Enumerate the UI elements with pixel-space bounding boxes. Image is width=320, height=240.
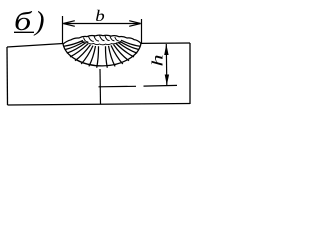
dimension b extension line right <box>141 19 143 44</box>
left plate top edge <box>7 44 63 48</box>
left plate left edge <box>6 47 9 105</box>
svg-text:h: h <box>149 54 166 66</box>
columnar grain line L3 <box>67 43 86 54</box>
dimension h top arrowhead <box>164 44 168 55</box>
columnar grain line L5 <box>75 45 91 61</box>
weld bead fusion boundary (lower half ellipse) <box>63 43 141 65</box>
columnar grain line R7 <box>109 46 116 67</box>
columnar grain line R2 <box>120 41 140 49</box>
dimension b right arrowhead <box>129 21 140 27</box>
columnar grain line R1 <box>121 40 140 46</box>
svg-text:b: b <box>95 6 105 24</box>
columnar grain line R6 <box>111 45 123 64</box>
columnar grain line L7 <box>89 46 96 66</box>
underline of label б <box>14 31 34 33</box>
columnar grain line R5 <box>114 45 130 61</box>
columnar grain line R4 <box>116 44 134 57</box>
dimension b line <box>63 23 140 25</box>
dimension h line <box>165 44 168 85</box>
columnar grain line L4 <box>70 44 88 57</box>
plates bottom edge <box>8 104 191 106</box>
columnar grain line L1 <box>64 41 83 47</box>
fine grain cell bottoms <box>81 41 122 45</box>
svg-text:): ) <box>33 7 45 37</box>
columnar grain line L8 <box>97 46 99 67</box>
columnar grain line L2 <box>65 42 85 50</box>
weld bead scalloped top surface <box>63 35 141 44</box>
dimension b extension line left <box>62 16 64 43</box>
svg-text:б: б <box>14 7 33 36</box>
columnar grain line R3 <box>118 42 137 53</box>
right plate right edge <box>189 43 191 104</box>
right plate top edge <box>141 42 190 44</box>
joint centerline below bead <box>99 69 102 105</box>
dimension h bottom arrowhead <box>165 75 169 86</box>
columnar grain line R8 <box>105 46 107 67</box>
fine grain cells at bead top center <box>84 36 119 42</box>
dimension b left arrowhead <box>63 21 75 27</box>
dimension h extension line (broken scan) <box>99 85 178 86</box>
columnar grain line L6 <box>81 46 93 64</box>
